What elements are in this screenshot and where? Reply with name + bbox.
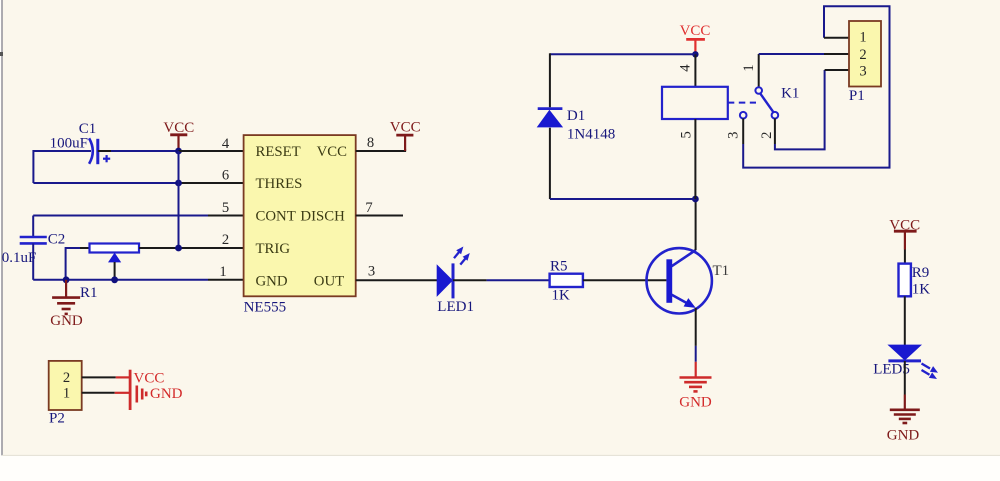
svg-text:GND: GND	[150, 386, 183, 402]
VCC symbol left	[163, 120, 194, 149]
svg-text:1N4148: 1N4148	[567, 127, 615, 143]
svg-text:NE555: NE555	[244, 300, 287, 316]
wire vertical node bus	[178, 151, 180, 248]
diode D1 1N4148	[537, 53, 616, 199]
wire P2 pin2	[82, 376, 130, 378]
wire D1 bottom to collector node	[550, 198, 696, 200]
svg-text:1: 1	[741, 64, 757, 71]
wire CONT line	[33, 215, 243, 217]
svg-text:1: 1	[219, 264, 226, 280]
svg-text:GND: GND	[887, 427, 920, 443]
pin names NE555	[256, 144, 348, 289]
svg-text:2: 2	[759, 132, 775, 139]
svg-text:VCC: VCC	[163, 120, 194, 136]
svg-text:R5: R5	[550, 258, 568, 274]
svg-text:D1: D1	[567, 108, 585, 124]
wire left vertical C1 loop	[32, 150, 34, 183]
wire K1 pin2 to P1 pin3	[775, 70, 849, 149]
svg-text:VCC: VCC	[317, 144, 348, 160]
svg-text:0.1uF: 0.1uF	[2, 250, 37, 266]
svg-text:7: 7	[365, 200, 372, 216]
wire LED5 to ground	[904, 361, 906, 410]
svg-text:1: 1	[859, 30, 866, 46]
svg-text:R9: R9	[912, 265, 930, 281]
svg-text:C2: C2	[48, 231, 66, 247]
svg-text:3: 3	[726, 132, 742, 139]
wire K1 pin1 to P1 pin2	[759, 53, 849, 55]
wire THRES line	[33, 182, 243, 184]
pin numbers NE555 right	[365, 135, 375, 280]
svg-text:GND: GND	[50, 313, 83, 329]
wire VCC to R9	[904, 250, 906, 264]
op-amp U1 NE555 body	[244, 135, 356, 315]
connector P1	[849, 21, 881, 104]
ground symbol left	[50, 280, 83, 329]
svg-text:4: 4	[222, 136, 230, 152]
svg-text:8: 8	[367, 135, 374, 151]
svg-text:2: 2	[63, 370, 70, 386]
svg-text:VCC: VCC	[680, 23, 711, 39]
wire K1 pin3 loop to P1 pin1	[743, 6, 889, 167]
svg-text:4: 4	[677, 64, 693, 72]
svg-text:DISCH: DISCH	[300, 209, 345, 225]
wire pin8 VCC stub	[356, 149, 405, 151]
resistor R9	[899, 264, 931, 298]
svg-text:2: 2	[859, 47, 866, 63]
relay coil K1a	[662, 54, 728, 199]
wire pin4 line left	[33, 150, 91, 152]
svg-text:VCC: VCC	[134, 371, 165, 387]
ground symbol LED5	[887, 410, 920, 444]
capacitor C1	[50, 121, 111, 164]
wire TRIG line	[139, 247, 244, 249]
VCC symbol R9 branch	[889, 218, 920, 250]
svg-text:LED1: LED1	[437, 299, 474, 315]
svg-text:OUT: OUT	[314, 273, 344, 289]
resistor R1 potentiometer	[66, 244, 139, 302]
ground symbol T1	[679, 362, 712, 411]
node dot VCC top	[692, 51, 698, 57]
dashed mechanical link	[728, 102, 756, 104]
node dot THRES	[175, 180, 182, 187]
node dot wiper	[111, 276, 118, 283]
svg-text:3: 3	[859, 64, 866, 80]
resistor R5	[550, 258, 583, 303]
transistor T1	[647, 248, 730, 313]
wire pin3 OUT to LED1	[356, 279, 438, 281]
wire T1 collector up	[695, 199, 697, 250]
node dot collector	[692, 196, 699, 203]
svg-text:6: 6	[222, 167, 229, 183]
svg-text:RESET: RESET	[256, 144, 301, 160]
svg-text:2: 2	[222, 232, 229, 248]
node dot pin4	[175, 148, 182, 155]
svg-text:R1: R1	[80, 285, 98, 301]
svg-text:5: 5	[678, 131, 694, 138]
node dot R1 left	[63, 276, 70, 283]
wire node to RESET pin	[179, 150, 244, 152]
wire pin7 DISCH stub	[356, 215, 403, 217]
wire T1 emitter down	[695, 308, 697, 362]
svg-text:VCC: VCC	[390, 119, 421, 135]
svg-text:TRIG: TRIG	[256, 241, 291, 257]
wire C1 to node	[98, 150, 179, 152]
svg-text:GND: GND	[679, 395, 712, 411]
svg-text:1K: 1K	[552, 287, 571, 303]
wire R5 to T1 base	[583, 279, 667, 281]
svg-text:P2: P2	[49, 410, 65, 426]
connector P2	[49, 361, 82, 427]
wire P2 pin1	[82, 392, 130, 394]
svg-text:3: 3	[368, 263, 375, 279]
LED5	[873, 345, 938, 379]
VCC and GND symbols P2	[130, 370, 183, 410]
svg-text:100uF: 100uF	[50, 136, 88, 152]
svg-text:CONT: CONT	[256, 209, 296, 225]
svg-text:1: 1	[63, 386, 70, 402]
wire LED1 to R5	[453, 279, 550, 281]
VCC symbol pin8	[390, 119, 421, 151]
svg-text:GND: GND	[256, 273, 288, 289]
svg-text:K1: K1	[781, 86, 799, 102]
svg-text:1K: 1K	[912, 282, 931, 298]
svg-text:THRES: THRES	[256, 176, 303, 192]
svg-text:P1: P1	[849, 88, 865, 104]
LED1	[437, 247, 474, 316]
wire top node to D1	[550, 53, 696, 55]
svg-text:C1: C1	[79, 121, 97, 137]
wire R9 to LED5	[904, 296, 906, 345]
wire GND line bottom	[33, 279, 243, 281]
svg-text:T1: T1	[713, 263, 730, 279]
switch K1	[726, 54, 800, 139]
pin numbers NE555 left	[219, 136, 230, 280]
VCC symbol top	[680, 23, 711, 52]
capacitor C2	[2, 216, 66, 280]
node dot TRIG	[175, 245, 182, 252]
svg-text:5: 5	[222, 200, 229, 216]
